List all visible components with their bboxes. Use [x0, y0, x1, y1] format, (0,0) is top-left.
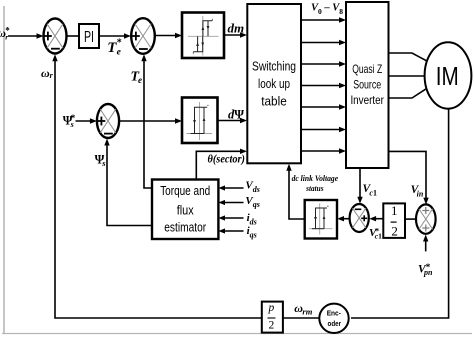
svg-text:look up: look up — [258, 76, 290, 91]
svg-text:p: p — [268, 302, 275, 314]
wire flux ref input — [76, 120, 94, 122]
wire B1 to table, label dm — [224, 34, 244, 36]
wire dc link status up into table — [289, 167, 305, 219]
svg-text:s: s — [101, 158, 106, 168]
wire IM down to encoder wire — [351, 109, 449, 319]
svg-text:flux: flux — [177, 204, 195, 218]
wire Vin from inverter to J5 — [389, 151, 427, 201]
svg-text:dm: dm — [228, 21, 245, 36]
summing junction J2 (torque) — [131, 18, 155, 54]
svg-text:dΨ: dΨ — [228, 108, 244, 122]
wire half block to J4 — [373, 218, 384, 220]
half (1/2) block — [383, 203, 405, 238]
svg-text:*: * — [375, 225, 379, 235]
wire PI to J2 — [99, 35, 128, 37]
estimator inputs Vds Vqs ids iqs — [222, 188, 244, 231]
flux hysteresis block B2 — [182, 98, 218, 144]
summing junction J4 (Vc1 comparator) — [350, 204, 369, 232]
wire J4 output to B3 — [341, 218, 350, 220]
summing junction J5 (Vin) — [416, 204, 436, 233]
svg-text:Inverter: Inverter — [350, 93, 384, 107]
svg-text:2: 2 — [391, 223, 398, 238]
summing junction J3 (flux) — [97, 104, 119, 138]
wire Vpn* into J5 bottom — [425, 238, 427, 252]
quasi Z source inverter block — [346, 2, 389, 168]
3 wires inverter to IM — [389, 53, 428, 98]
wire J3 to flux hysteresis — [119, 120, 179, 122]
PI block — [79, 24, 99, 48]
torque hysteresis block B1 — [182, 13, 224, 59]
wire B2 to table, label dPsi — [218, 120, 244, 122]
svg-text:estimator: estimator — [164, 221, 206, 235]
wire Vc1 from inverter down to J4 — [359, 168, 361, 201]
svg-text:Quasi Z: Quasi Z — [352, 62, 382, 76]
svg-text:dc link Voltage: dc link Voltage — [292, 173, 339, 183]
svg-text:Torque and: Torque and — [160, 184, 210, 198]
svg-text:*: * — [117, 38, 122, 49]
svg-text:*: * — [5, 26, 10, 36]
svg-text:Enc-: Enc- — [327, 309, 342, 318]
svg-text:status: status — [305, 183, 324, 193]
switching lookup table block — [247, 4, 301, 163]
IM motor — [425, 42, 472, 108]
svg-text:c1: c1 — [369, 189, 377, 198]
svg-text:rm: rm — [302, 307, 312, 317]
svg-text:Source: Source — [353, 78, 381, 92]
wire J2 to torque hysteresis — [155, 35, 179, 37]
wire J1 to PI — [67, 35, 80, 37]
torque and flux estimator block — [152, 180, 218, 240]
svg-text:oder: oder — [328, 319, 342, 328]
svg-text:table: table — [261, 94, 287, 109]
svg-text:2: 2 — [269, 320, 275, 332]
svg-text:1: 1 — [391, 203, 398, 218]
wire theta sector — [196, 151, 243, 179]
wire J5 to half block — [405, 218, 416, 220]
svg-text:PI: PI — [84, 29, 94, 46]
wire psi_s feedback — [107, 142, 152, 226]
wire omega_r feedback loop — [55, 57, 261, 318]
svg-text:*: * — [71, 113, 76, 123]
svg-text:in: in — [417, 189, 424, 198]
encoder — [319, 304, 348, 333]
7 wires table to inverter — [301, 20, 343, 151]
svg-text:θ(sector): θ(sector) — [208, 153, 246, 165]
dc hysteresis block B3 — [305, 200, 337, 239]
wire p/2 to encoder, label omega_rm — [283, 317, 319, 319]
wire Te feedback — [144, 57, 152, 188]
svg-text:Switching: Switching — [252, 59, 296, 74]
svg-text:IM: IM — [436, 61, 459, 91]
p/2 block — [262, 302, 283, 333]
wire: speed ref input — [8, 35, 39, 37]
svg-text:*: * — [426, 262, 431, 272]
summing junction J1 (speed) — [44, 19, 67, 54]
svg-text:e: e — [138, 75, 142, 85]
